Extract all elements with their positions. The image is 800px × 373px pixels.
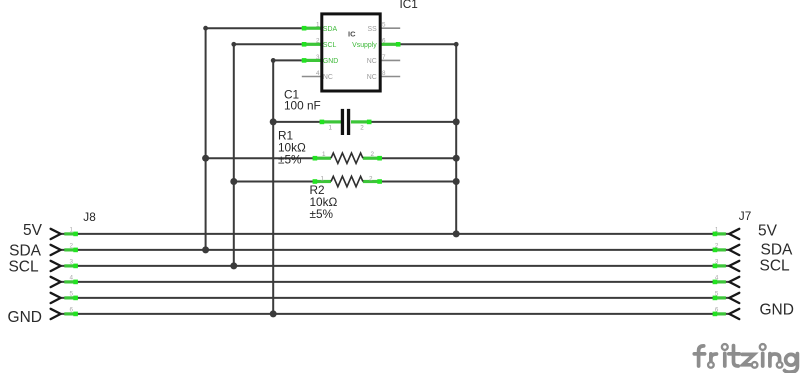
svg-text:1: 1 — [329, 125, 333, 132]
svg-text:1: 1 — [322, 151, 326, 158]
svg-text:SDA: SDA — [323, 26, 338, 33]
svg-text:2: 2 — [715, 242, 719, 249]
svg-text:8: 8 — [382, 70, 386, 77]
svg-text:2: 2 — [70, 242, 74, 249]
svg-text:1: 1 — [321, 175, 325, 182]
svg-text:GND: GND — [760, 302, 794, 319]
svg-text:NC: NC — [367, 74, 377, 81]
svg-text:SCL: SCL — [8, 258, 39, 275]
svg-text:6: 6 — [382, 38, 386, 45]
svg-text:SCL: SCL — [760, 258, 791, 275]
svg-text:5: 5 — [70, 290, 74, 297]
svg-text:±5%: ±5% — [310, 207, 334, 221]
svg-text:5V: 5V — [758, 222, 778, 239]
svg-text:±5%: ±5% — [278, 153, 302, 167]
svg-text:J8: J8 — [83, 210, 96, 224]
svg-text:4: 4 — [316, 70, 320, 77]
svg-text:SCL: SCL — [323, 42, 337, 49]
svg-text:GND: GND — [323, 58, 338, 65]
svg-text:NC: NC — [367, 58, 377, 65]
svg-text:1: 1 — [70, 226, 74, 233]
svg-text:2: 2 — [371, 151, 375, 158]
svg-text:J7: J7 — [739, 209, 751, 223]
svg-text:SS: SS — [367, 26, 377, 33]
svg-text:Vsupply: Vsupply — [352, 42, 377, 49]
svg-text:3: 3 — [316, 54, 320, 61]
svg-text:3: 3 — [70, 258, 74, 265]
svg-text:1: 1 — [316, 22, 320, 29]
svg-text:6: 6 — [70, 306, 74, 313]
svg-text:GND: GND — [8, 309, 42, 326]
svg-text:2: 2 — [369, 175, 373, 182]
svg-text:SDA: SDA — [9, 242, 42, 259]
svg-text:4: 4 — [70, 274, 74, 281]
svg-text:SDA: SDA — [761, 242, 794, 259]
svg-text:5V: 5V — [23, 222, 43, 239]
svg-text:2: 2 — [316, 38, 320, 45]
svg-text:1: 1 — [715, 226, 719, 233]
svg-text:3: 3 — [715, 258, 719, 265]
svg-text:IC: IC — [348, 30, 356, 39]
svg-text:2: 2 — [360, 125, 364, 132]
svg-text:5: 5 — [382, 22, 386, 29]
svg-text:6: 6 — [715, 306, 719, 313]
svg-text:100 nF: 100 nF — [284, 99, 321, 113]
svg-text:7: 7 — [382, 54, 386, 61]
svg-text:IC1: IC1 — [400, 0, 418, 11]
svg-text:NC: NC — [323, 74, 333, 81]
svg-text:4: 4 — [715, 274, 719, 281]
svg-text:5: 5 — [715, 290, 719, 297]
